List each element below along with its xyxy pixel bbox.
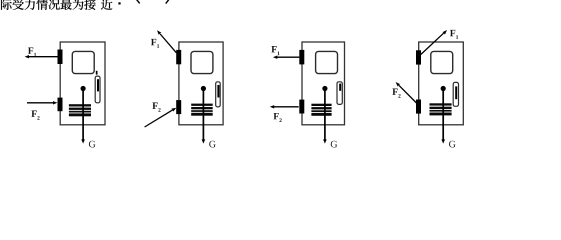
weight arrow G D3 [324,89,326,141]
window D4 [431,51,453,73]
hinge bottom D3 [299,100,304,114]
vent stripes D4 [430,103,452,115]
hinge bottom D2 [176,100,181,114]
door outline D3 [302,42,345,125]
vent stripes D3 [311,104,331,116]
hinge top D3 [299,50,304,65]
hinge bottom D1 [58,98,63,112]
window D1 [72,51,94,73]
force arrow F2 D4 [399,85,417,103]
window D2 [191,51,213,73]
force arrow F1 D2 [160,34,176,53]
force arrow F1 D1 [29,56,58,58]
force arrow F1 D4 [421,33,444,54]
weight arrow G D1 [82,89,84,141]
label F2 D4 [392,89,397,95]
right paren tip [166,0,169,4]
label F2 D3 [273,113,278,119]
question text (clipped Chinese line) [1,0,112,10]
hinge top D1 [58,50,63,65]
force arrow F2 D3 [274,106,299,108]
handle D1 [95,76,100,103]
door outline D4 [419,42,464,125]
label F1 D1 [28,47,33,53]
window D3 [316,51,338,73]
label G D3 [331,141,338,148]
hinge top D4 [416,50,421,64]
label F1 D4 [450,30,455,36]
force arrow F2 D2 [145,110,173,127]
weight arrow G D2 [202,89,204,141]
centre-of-gravity dot D4 [441,86,446,91]
door outline D2 [179,42,223,125]
handle D4 [453,82,458,106]
label F2 D2 [152,103,157,109]
label G D4 [449,141,456,148]
colon dot [118,2,120,4]
hinge top D2 [176,50,181,64]
force arrow F1 D3 [277,56,300,58]
force arrow F2 D1 [27,102,53,104]
weight arrow G D4 [442,89,444,141]
left paren tip [136,0,139,3]
label G D1 [89,141,96,148]
label G D2 [209,141,216,148]
label F1 D3 [271,46,276,52]
door outline D1 [60,42,105,125]
label F1 D2 [151,39,156,45]
handle D2 [216,82,221,107]
handle D3 [337,82,342,105]
label F2 D1 [31,111,36,117]
centre-of-gravity dot D2 [201,86,206,91]
centre-of-gravity dot D1 [81,86,86,91]
centre-of-gravity dot D3 [322,86,327,91]
hinge bottom D4 [416,100,421,114]
vent stripes D2 [191,104,213,116]
vent stripes D1 [69,104,91,116]
